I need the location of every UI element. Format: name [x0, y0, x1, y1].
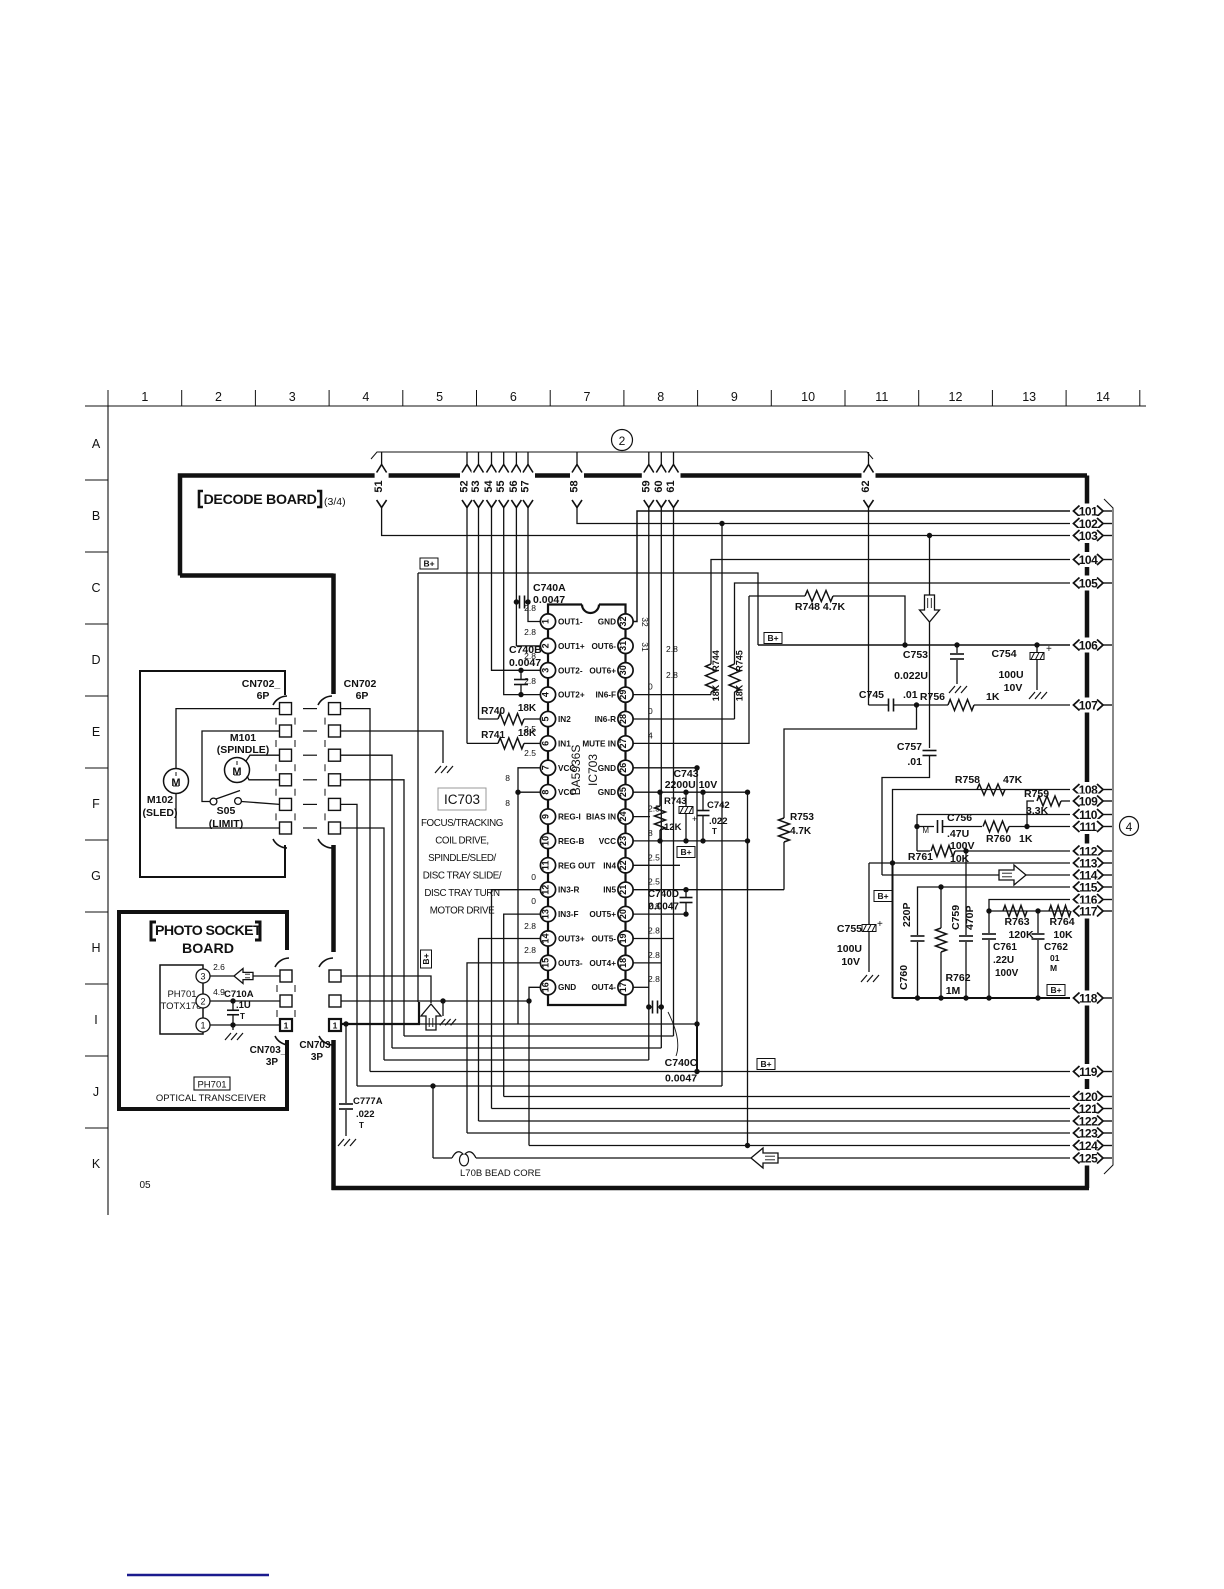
IC703 pin 12 (IN3-R)	[540, 882, 555, 897]
svg-text:G: G	[91, 869, 101, 883]
capacitor C743 2200U 10V	[685, 792, 687, 806]
capacitor C756 .47U 100V	[937, 820, 939, 833]
svg-text:12K: 12K	[664, 822, 682, 833]
mating dash	[303, 730, 317, 732]
pin 17 stub	[633, 986, 649, 988]
svg-text:32: 32	[618, 616, 628, 626]
wire CN702-3 to M101	[246, 755, 280, 761]
wire CN702R-6 to bundle	[341, 828, 385, 1060]
svg-text:C710A: C710A	[224, 989, 254, 1000]
net 123 wire	[467, 1132, 1070, 1134]
svg-text:OUT5-: OUT5-	[591, 934, 616, 943]
wire 62 to C745	[868, 507, 870, 705]
wire bus 60 pin18 to bundle	[660, 507, 662, 1048]
capacitor C742 .022	[702, 792, 704, 810]
IC703 pin 9 (REG-I)	[540, 809, 555, 824]
svg-text:C761: C761	[993, 942, 1017, 953]
B+ rail from chip-left to net 106	[418, 573, 758, 645]
net 111 C756 R760 row	[916, 815, 918, 852]
svg-text:K: K	[92, 1157, 101, 1171]
svg-text:.01: .01	[907, 756, 922, 768]
wire CN702R-3 to bundle	[341, 755, 393, 1048]
svg-text:21: 21	[618, 885, 628, 895]
capacitor C755 100U 10V	[862, 925, 876, 932]
svg-text:18K: 18K	[735, 684, 745, 701]
svg-text:R759: R759	[1024, 788, 1049, 800]
wire bus 53 to pin 5 row	[478, 507, 480, 719]
svg-text:05: 05	[139, 1180, 151, 1191]
svg-text:3: 3	[540, 668, 550, 673]
motor M101 (SPINDLE)	[225, 758, 250, 783]
resistor R761 10K	[931, 846, 955, 857]
capacitor C740B	[514, 679, 528, 681]
svg-text:H: H	[91, 941, 100, 955]
svg-text:.022: .022	[356, 1109, 375, 1120]
svg-text:C740A: C740A	[533, 582, 566, 594]
svg-text:18K: 18K	[518, 703, 537, 714]
svg-text:FOCUS/TRACKING: FOCUS/TRACKING	[421, 818, 503, 829]
IC703 pin 2 (OUT1+)	[540, 638, 555, 653]
svg-text:GND: GND	[598, 764, 616, 773]
svg-text:C742: C742	[707, 800, 730, 811]
svg-text:24: 24	[618, 812, 628, 822]
CN702 left connector half	[273, 696, 287, 705]
decode board title	[199, 491, 203, 507]
IC703 pin 27 (MUTE IN)	[618, 736, 633, 751]
capacitor C760 220P	[911, 935, 925, 937]
svg-text:PHOTO SOCKET: PHOTO SOCKET	[155, 923, 262, 939]
svg-text:OUT1-: OUT1-	[558, 618, 583, 627]
CN702 right pin 2	[329, 725, 341, 737]
sheet reference circle 2	[612, 430, 633, 451]
svg-text:10: 10	[540, 836, 550, 846]
CN703 right pin 2	[329, 995, 341, 1007]
svg-text:1: 1	[333, 1021, 338, 1031]
net arrow 109	[1070, 794, 1106, 809]
svg-text:R762: R762	[945, 972, 970, 984]
resistor R741 18K	[498, 738, 524, 749]
net 117 R763 R764 row	[989, 910, 1070, 912]
svg-text:L70B BEAD CORE: L70B BEAD CORE	[460, 1168, 541, 1179]
svg-text:OUT2+: OUT2+	[558, 691, 585, 700]
svg-text:2.8: 2.8	[524, 651, 536, 661]
svg-text:4: 4	[362, 390, 369, 404]
svg-text:R740: R740	[481, 706, 505, 717]
net arrow 113	[1070, 856, 1106, 871]
net arrow 117	[1070, 904, 1106, 919]
IC703 pin 29 (IN6-F)	[618, 687, 633, 702]
svg-text:11: 11	[875, 390, 888, 404]
svg-text:IN6-F: IN6-F	[596, 691, 616, 700]
svg-text:BA5936S: BA5936S	[569, 745, 583, 796]
svg-text:62: 62	[860, 480, 872, 492]
svg-text:PH701: PH701	[167, 989, 196, 1000]
svg-text:16: 16	[540, 982, 550, 992]
svg-text:M: M	[171, 777, 180, 789]
svg-text:R743: R743	[664, 796, 687, 807]
svg-text:CN702_: CN702_	[242, 678, 281, 690]
connector pin arrow 60	[660, 452, 662, 465]
bottom-left blue rule	[127, 1574, 269, 1577]
IC703 pin 8 (VCC)	[540, 785, 555, 800]
resistor R764 10K	[1049, 906, 1071, 917]
svg-text:C756: C756	[947, 812, 972, 824]
svg-text:.01: .01	[903, 689, 918, 701]
connector pin arrow 51	[381, 452, 383, 465]
svg-text:MOTOR DRIVE: MOTOR DRIVE	[430, 906, 495, 917]
wire bus 52 to pin 6 row	[466, 507, 468, 743]
svg-text:OUT3-: OUT3-	[558, 959, 583, 968]
IC703 pin 15 (OUT3-)	[540, 955, 555, 970]
net arrow 125	[1070, 1151, 1106, 1166]
resistor R740 18K	[498, 714, 524, 725]
net 120 wire	[504, 1096, 1070, 1098]
svg-text:0.0047: 0.0047	[665, 1073, 697, 1085]
svg-text:6P: 6P	[257, 690, 270, 702]
pin 26 GND row	[633, 767, 697, 769]
net arrow 119	[1070, 1064, 1106, 1079]
wire bus 57 to pin 1	[528, 507, 540, 622]
svg-text:120K: 120K	[1008, 929, 1034, 941]
wire CN703R-2 GND line	[341, 1000, 529, 1002]
capacitor C740C	[652, 1001, 654, 1014]
svg-text:2.8: 2.8	[524, 676, 536, 686]
mating dash	[303, 754, 317, 756]
net 119 B+ wire	[370, 1071, 1070, 1073]
net arrow 118	[1070, 991, 1106, 1006]
resistor R756 1K to net 107	[948, 700, 974, 711]
PH701 designator box	[194, 1077, 230, 1090]
decode board border (thick outline)	[180, 476, 1087, 576]
svg-text:BIAS IN: BIAS IN	[586, 813, 616, 822]
svg-text:52: 52	[459, 480, 471, 492]
svg-text:C760: C760	[898, 965, 910, 990]
svg-text:7: 7	[584, 390, 591, 404]
wire bus 55 to pin 4	[504, 507, 540, 695]
svg-text:54: 54	[483, 480, 495, 493]
svg-text:MUTE IN: MUTE IN	[582, 739, 616, 748]
IC703 pin 3 (OUT2-)	[540, 663, 555, 678]
svg-text:DISC TRAY SLIDE/: DISC TRAY SLIDE/	[423, 871, 502, 882]
svg-text:14: 14	[540, 933, 550, 943]
bundle wire y1048	[392, 1047, 661, 1049]
svg-text:29: 29	[618, 690, 628, 700]
pin 23 VCC row (B+)	[633, 840, 748, 842]
svg-text:C759: C759	[950, 905, 962, 930]
svg-text:17: 17	[618, 982, 628, 992]
svg-text:2: 2	[540, 643, 550, 648]
B+ label net 118	[1047, 985, 1065, 996]
svg-text:B+: B+	[421, 953, 431, 964]
svg-text:IN4: IN4	[603, 861, 616, 870]
svg-text:IN3-R: IN3-R	[558, 886, 579, 895]
connector pin arrow 59	[648, 452, 650, 465]
svg-text:2.8: 2.8	[524, 921, 536, 931]
IC703 pin 18 (OUT4+)	[618, 955, 633, 970]
IC703 pin 30 (OUT6+)	[618, 663, 633, 678]
svg-text:DISC TRAY TURN: DISC TRAY TURN	[424, 888, 500, 899]
svg-text:REG OUT: REG OUT	[558, 861, 595, 870]
capacitor C777A .022	[345, 1024, 347, 1103]
wire CN702R-5 to bundle	[341, 804, 358, 1086]
connector pin arrow 54	[491, 452, 493, 465]
IC703 pin 7 (VCC)	[540, 760, 555, 775]
svg-text:2.8: 2.8	[524, 627, 536, 637]
net 110 wire	[917, 814, 1070, 816]
bundle wire y1086	[357, 1085, 722, 1087]
svg-text:61: 61	[665, 480, 677, 492]
svg-text:R741: R741	[481, 730, 505, 741]
net arrow 112	[1070, 844, 1106, 859]
wire 58 line to net 102	[577, 507, 1070, 524]
B+ label pin23	[677, 847, 695, 858]
svg-text:0.0047: 0.0047	[533, 594, 565, 606]
B+ column to net 124	[747, 841, 749, 1146]
svg-text:C754: C754	[991, 648, 1016, 660]
PH701 TOTX178 block	[160, 965, 203, 1034]
CN703 right pin 3	[329, 970, 341, 982]
limit switch S05	[210, 798, 217, 805]
svg-text:9: 9	[731, 390, 738, 404]
net 124 wire	[529, 1145, 1070, 1147]
wire PH701-2 to CN703	[210, 1000, 280, 1002]
svg-text:2.8: 2.8	[648, 950, 660, 960]
CN703 left pin 2	[280, 995, 292, 1007]
svg-text:.47U: .47U	[947, 828, 969, 840]
CN702 right connector half	[318, 696, 332, 705]
svg-text:IN2: IN2	[558, 715, 571, 724]
net arrow 124	[1070, 1138, 1106, 1153]
svg-text:2: 2	[200, 997, 205, 1007]
svg-text:1K: 1K	[986, 691, 1000, 703]
svg-text:B+: B+	[877, 891, 888, 901]
svg-text:51: 51	[373, 480, 385, 492]
svg-text:0: 0	[531, 872, 536, 882]
svg-text:2.8: 2.8	[648, 974, 660, 984]
svg-text:C757: C757	[897, 741, 922, 753]
svg-text:47K: 47K	[1003, 774, 1023, 786]
svg-text:19: 19	[618, 933, 628, 943]
CN702 right pin 4	[329, 774, 341, 786]
svg-text:8: 8	[505, 773, 510, 783]
pin 21 IN5 row to R753	[633, 889, 784, 891]
svg-text:4: 4	[540, 692, 550, 697]
svg-text:106: 106	[1079, 639, 1098, 653]
op-amp driver IC703 body	[582, 605, 599, 614]
connector pin arrow 52	[466, 452, 468, 465]
svg-text:30: 30	[618, 665, 628, 675]
svg-text:8: 8	[657, 390, 664, 404]
IC703 pin 13 (IN3-F)	[540, 906, 555, 921]
svg-text:F: F	[92, 797, 100, 811]
CN703 left pin 1	[280, 1019, 292, 1031]
junction column pin25 to IN5 row	[747, 792, 749, 890]
resistor R763 120K	[1003, 906, 1027, 917]
net 116 wire	[989, 900, 1070, 912]
net 118 rail	[893, 997, 1071, 999]
net 103 junction column with C757	[929, 536, 931, 749]
VCC wire pins 7-8 to B+ rail	[518, 768, 540, 1024]
svg-text:TOTX178: TOTX178	[160, 1001, 201, 1012]
svg-text:M: M	[1050, 963, 1057, 973]
svg-text:27: 27	[618, 738, 628, 748]
IC703 pin 28 (IN6-R)	[618, 711, 633, 726]
resistor R758 47K	[977, 784, 1005, 795]
svg-text:OUT1+: OUT1+	[558, 642, 585, 651]
svg-text:103: 103	[1079, 529, 1098, 543]
wire CN702R-1 to B+ net 119	[341, 709, 371, 1072]
net 125 arrow left	[751, 1148, 778, 1168]
svg-text:5: 5	[436, 390, 443, 404]
mating dash	[303, 803, 317, 805]
svg-text:12: 12	[949, 390, 963, 404]
svg-text:A: A	[92, 437, 101, 451]
IC703 pin 25 (GND)	[618, 785, 633, 800]
inter-board arrow down	[920, 595, 940, 622]
net arrow 105	[1070, 576, 1106, 591]
IC703 pin 26 (GND)	[618, 760, 633, 775]
svg-text:M102: M102	[147, 794, 173, 806]
svg-text:I: I	[94, 1013, 97, 1027]
B+ label filter left	[874, 891, 892, 902]
svg-text:12: 12	[540, 885, 550, 895]
svg-text:11: 11	[540, 861, 550, 871]
IC703 pin 20 (OUT5+)	[618, 906, 633, 921]
svg-text:C745: C745	[859, 689, 884, 701]
photo socket board title	[151, 922, 156, 940]
connector pin arrow 58	[576, 452, 578, 465]
resistor R759 3.3K to net 109	[1027, 801, 1034, 827]
wire CN703R-1 B+ line	[341, 1023, 420, 1025]
svg-text:R756: R756	[920, 691, 945, 703]
svg-text:13: 13	[540, 909, 550, 919]
svg-text:R744: R744	[711, 650, 721, 672]
CN703 left pin 3	[280, 970, 292, 982]
ground C710A	[225, 1033, 231, 1040]
svg-text:C755: C755	[837, 923, 862, 935]
net arrow 121	[1070, 1101, 1106, 1116]
B+ riser thick	[418, 1002, 420, 1024]
wire CN702R-4 to bundle	[341, 780, 405, 1036]
bundle wire y1036	[404, 1035, 674, 1037]
svg-text:IN5: IN5	[603, 886, 616, 895]
svg-text:R760: R760	[986, 833, 1011, 845]
pin 22 stub	[633, 864, 680, 866]
svg-text:REG-B: REG-B	[558, 837, 584, 846]
svg-text:0: 0	[531, 896, 536, 906]
svg-text:4.7K: 4.7K	[790, 826, 812, 837]
CN702 left pin 6	[280, 822, 292, 834]
svg-text:2: 2	[619, 434, 626, 448]
svg-text:OUT4+: OUT4+	[589, 959, 616, 968]
resistor R745 18K	[729, 664, 740, 692]
svg-text:(SPINDLE): (SPINDLE)	[217, 744, 270, 756]
PH701 terminal 3	[196, 969, 210, 983]
CN702 left pin 1	[280, 703, 292, 715]
B+ rail vertical at chip left	[417, 573, 419, 1002]
CN702 right pin 6	[329, 822, 341, 834]
svg-text:2.8: 2.8	[648, 925, 660, 935]
net arrow 107	[1070, 698, 1106, 713]
CN702 left pin 3	[280, 749, 292, 761]
svg-text:28: 28	[618, 714, 628, 724]
svg-text:5: 5	[540, 717, 550, 722]
net 125 wire with bead core	[432, 1086, 434, 1158]
net arrow 104	[1070, 552, 1106, 567]
svg-text:58: 58	[569, 480, 581, 492]
wire bus 59 pin17 row to bundle	[648, 507, 650, 1060]
svg-text:9: 9	[540, 814, 550, 819]
svg-text:(SLED): (SLED)	[143, 807, 178, 819]
pin 27 MUTE wire to R748	[633, 596, 749, 743]
motor M102 (SLED)	[164, 769, 189, 794]
junction wire102 column	[721, 524, 723, 1087]
svg-text:M: M	[922, 826, 929, 835]
svg-text:M101: M101	[230, 732, 256, 744]
net 106 B+ line	[758, 644, 1070, 646]
B+ rail of output filter	[892, 863, 894, 998]
net 121 wire	[492, 1108, 1071, 1110]
svg-text:E: E	[92, 725, 100, 739]
capacitor C757 .01	[923, 750, 937, 752]
svg-text:470P: 470P	[964, 905, 976, 930]
resistor R753 4.7K	[783, 842, 785, 890]
svg-text:GND: GND	[558, 983, 576, 992]
svg-text:2200U 10V: 2200U 10V	[665, 779, 718, 791]
svg-text:VCC: VCC	[599, 837, 616, 846]
svg-text:GND: GND	[598, 788, 616, 797]
svg-text:3P: 3P	[311, 1052, 324, 1063]
net arrow 116	[1070, 892, 1106, 907]
svg-text:R764: R764	[1049, 916, 1074, 928]
wire bus 54 to pin 3	[492, 507, 541, 670]
svg-text:DECODE BOARD: DECODE BOARD	[203, 492, 316, 508]
inter-sheet bracket 2	[371, 452, 873, 459]
svg-text:3: 3	[200, 972, 205, 982]
svg-text:IN3-F: IN3-F	[558, 910, 578, 919]
svg-text:13: 13	[1022, 390, 1036, 404]
CN703 right pin 1	[329, 1019, 341, 1031]
PH701 terminal 1	[196, 1018, 210, 1032]
connector pin arrow 61	[673, 452, 675, 465]
capacitor C745 .01	[888, 699, 890, 712]
svg-text:1K: 1K	[1019, 833, 1033, 845]
svg-text:3P: 3P	[266, 1057, 279, 1068]
svg-text:100U: 100U	[837, 943, 862, 955]
left ruler line	[107, 406, 109, 1215]
motor enclosure box	[140, 671, 285, 877]
IC703 pin 32 (GND)	[618, 614, 633, 629]
CN702 right pin 3	[329, 749, 341, 761]
pin 19 stub	[633, 938, 674, 940]
svg-text:0.0047: 0.0047	[648, 902, 679, 913]
capacitor C762 01 M	[1037, 911, 1039, 933]
IC703 pin 23 (VCC)	[618, 833, 633, 848]
svg-text:C740C: C740C	[665, 1057, 698, 1069]
svg-text:T: T	[240, 1012, 245, 1021]
B+ drop to net 119	[696, 1024, 698, 1072]
svg-text:1: 1	[540, 619, 550, 624]
svg-text:107: 107	[1079, 699, 1098, 713]
svg-text:OUT5+: OUT5+	[589, 910, 616, 919]
wire bus 61 pin19 to bundle	[673, 507, 675, 1036]
wire CN703R-3 to arrow	[341, 976, 431, 1003]
svg-text:+: +	[692, 814, 697, 824]
svg-text:4: 4	[1126, 820, 1133, 834]
wire bus 56 to pin 2	[516, 507, 540, 646]
net arrow 111	[1070, 819, 1106, 834]
wire CN702-2 to S05	[202, 731, 280, 802]
